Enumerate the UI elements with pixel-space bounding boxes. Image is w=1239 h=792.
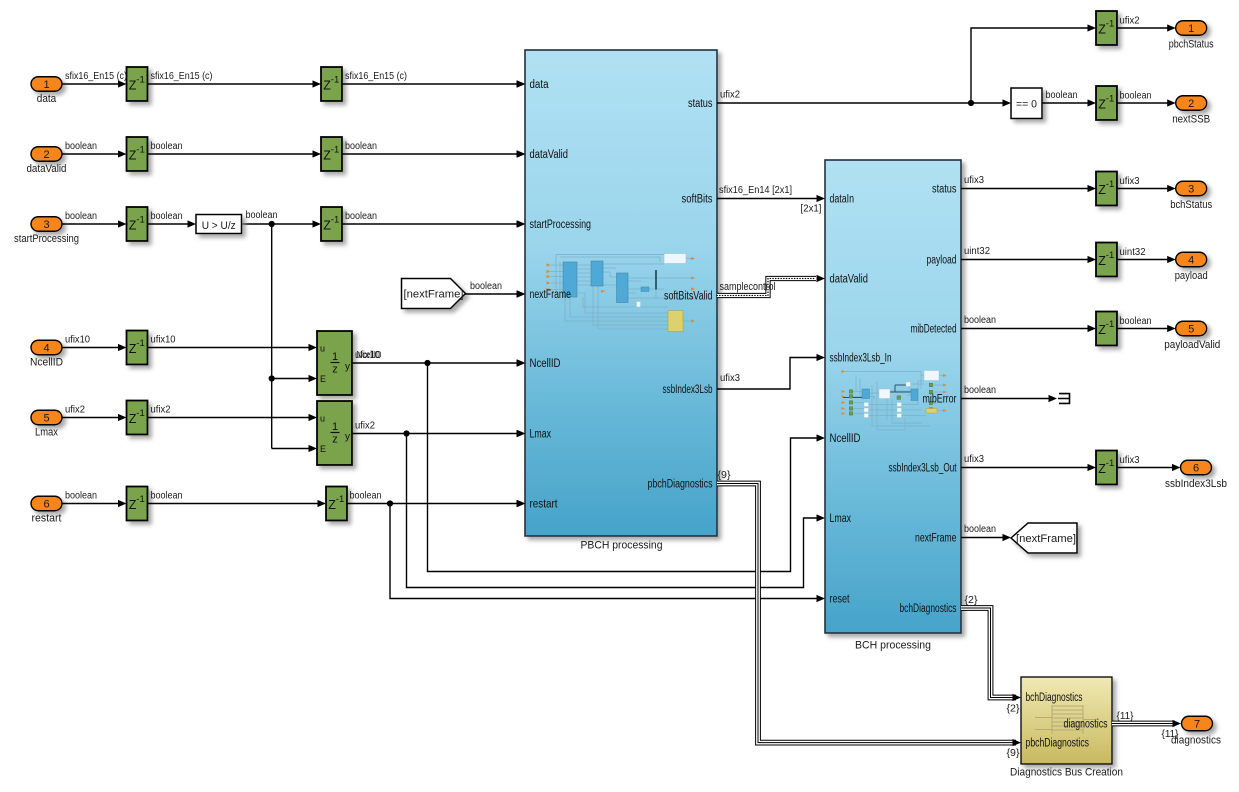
svg-text:NcellID: NcellID (530, 358, 561, 370)
svg-text:mibError: mibError (923, 393, 957, 405)
svg-text:{11}: {11} (1117, 711, 1135, 722)
svg-text:-1: -1 (136, 214, 144, 225)
svg-text:bchStatus: bchStatus (1170, 199, 1212, 211)
svg-text:dataValid: dataValid (830, 273, 869, 285)
svg-text:[nextFrame]: [nextFrame] (404, 289, 464, 301)
svg-text:5: 5 (1188, 323, 1194, 335)
svg-text:ufix3: ufix3 (720, 373, 740, 384)
svg-text:ufix2: ufix2 (1120, 16, 1140, 27)
svg-text:-1: -1 (1106, 179, 1114, 190)
svg-text:nextFrame: nextFrame (530, 289, 572, 301)
svg-text:2: 2 (43, 149, 49, 161)
svg-text:E: E (320, 374, 326, 384)
svg-text:reset: reset (830, 593, 851, 605)
svg-text:NcellID: NcellID (357, 350, 382, 361)
svg-text:dataValid: dataValid (530, 149, 569, 161)
svg-text:U > U/z: U > U/z (202, 220, 236, 232)
svg-text:-1: -1 (331, 144, 339, 155)
svg-text:ufix3: ufix3 (1120, 176, 1140, 187)
svg-text:{2}: {2} (965, 595, 979, 606)
svg-text:-1: -1 (136, 144, 144, 155)
svg-text:Diagnostics Bus Creation: Diagnostics Bus Creation (1010, 767, 1123, 779)
svg-text:pbchStatus: pbchStatus (1169, 38, 1214, 50)
svg-text:NcellID: NcellID (830, 433, 861, 445)
svg-text:ufix10: ufix10 (65, 334, 90, 345)
svg-text:boolean: boolean (470, 281, 502, 292)
svg-text:status: status (688, 98, 713, 110)
svg-text:payload: payload (927, 254, 957, 266)
svg-text:boolean: boolean (151, 490, 183, 501)
svg-text:4: 4 (1188, 254, 1194, 266)
svg-text:boolean: boolean (350, 490, 382, 501)
svg-text:-1: -1 (1106, 18, 1114, 29)
svg-text:z: z (332, 434, 338, 446)
svg-text:softBits: softBits (682, 193, 713, 205)
svg-text:ssbIndex3Lsb: ssbIndex3Lsb (663, 384, 713, 396)
svg-text:-1: -1 (136, 408, 144, 419)
svg-text:uint32: uint32 (964, 246, 990, 257)
svg-text:-1: -1 (1106, 319, 1114, 330)
svg-text:startProcessing: startProcessing (14, 233, 79, 245)
svg-text:boolean: boolean (65, 211, 97, 222)
svg-text:6: 6 (1193, 462, 1199, 474)
svg-text:z: z (332, 364, 338, 376)
svg-text:ufix2: ufix2 (151, 404, 171, 415)
svg-text:[nextFrame]: [nextFrame] (1016, 533, 1076, 545)
svg-text:boolean: boolean (345, 211, 377, 222)
svg-text:status: status (932, 183, 957, 195)
svg-text:PBCH processing: PBCH processing (581, 540, 663, 552)
svg-text:boolean: boolean (246, 210, 278, 221)
svg-text:boolean: boolean (1120, 316, 1152, 327)
svg-text:-1: -1 (136, 338, 144, 349)
svg-text:ufix2: ufix2 (65, 404, 85, 415)
svg-text:1: 1 (1188, 23, 1194, 35)
svg-text:3: 3 (1188, 183, 1194, 195)
svg-text:restart: restart (32, 512, 62, 524)
svg-text:Lmax: Lmax (35, 426, 58, 438)
svg-text:NcellID: NcellID (30, 356, 63, 368)
svg-text:y: y (345, 432, 350, 443)
svg-text:boolean: boolean (964, 315, 996, 326)
svg-text:bchDiagnostics: bchDiagnostics (900, 603, 957, 615)
svg-text:data: data (37, 93, 57, 105)
svg-text:-1: -1 (1106, 93, 1114, 104)
svg-text:-1: -1 (331, 74, 339, 85)
svg-text:boolean: boolean (65, 490, 97, 501)
svg-text:ufix3: ufix3 (964, 175, 984, 186)
svg-text:u: u (320, 414, 325, 424)
svg-text:startProcessing: startProcessing (530, 219, 592, 231)
svg-text:1: 1 (43, 79, 49, 91)
svg-text:diagnostics: diagnostics (1171, 734, 1221, 746)
svg-text:restart: restart (530, 498, 559, 510)
svg-text:{2}: {2} (1007, 704, 1021, 715)
svg-text:Lmax: Lmax (830, 513, 852, 525)
svg-text:dataValid: dataValid (27, 163, 67, 175)
svg-text:-1: -1 (331, 214, 339, 225)
svg-text:ssbIndex3Lsb_In: ssbIndex3Lsb_In (830, 352, 892, 364)
svg-text:boolean: boolean (345, 141, 377, 152)
svg-text:{9}: {9} (718, 470, 732, 481)
svg-text:nextFrame: nextFrame (915, 532, 957, 544)
svg-text:sfix16_En14 [2x1]: sfix16_En14 [2x1] (719, 185, 792, 196)
svg-text:ssbIndex3Lsb: ssbIndex3Lsb (1165, 478, 1227, 490)
svg-text:sfix16_En15 (c): sfix16_En15 (c) (345, 71, 407, 82)
svg-text:boolean: boolean (151, 211, 183, 222)
svg-text:6: 6 (43, 498, 49, 510)
svg-text:ufix2: ufix2 (355, 420, 375, 431)
svg-text:u: u (320, 344, 325, 354)
svg-text:E: E (320, 444, 326, 454)
svg-text:boolean: boolean (964, 524, 996, 535)
svg-text:dataIn: dataIn (830, 193, 855, 205)
svg-text:ssbIndex3Lsb_Out: ssbIndex3Lsb_Out (889, 462, 958, 474)
svg-text:samplecontrol: samplecontrol (720, 281, 776, 293)
svg-text:payload: payload (1175, 270, 1208, 282)
svg-text:bchDiagnostics: bchDiagnostics (1026, 692, 1083, 704)
svg-text:-1: -1 (136, 74, 144, 85)
svg-text:4: 4 (43, 342, 49, 354)
svg-text:-1: -1 (136, 494, 144, 505)
svg-text:ufix10: ufix10 (151, 334, 176, 345)
svg-text:-1: -1 (1106, 458, 1114, 469)
svg-text:softBitsValid: softBitsValid (664, 290, 713, 302)
svg-text:BCH processing: BCH processing (855, 640, 931, 652)
svg-text:ufix2: ufix2 (720, 90, 740, 101)
svg-text:y: y (345, 362, 350, 373)
svg-text:3: 3 (43, 219, 49, 231)
svg-text:payloadValid: payloadValid (1164, 339, 1220, 351)
svg-text:2: 2 (1188, 98, 1194, 110)
svg-text:ufix3: ufix3 (1120, 455, 1140, 466)
svg-text:boolean: boolean (151, 141, 183, 152)
svg-text:mibDetected: mibDetected (911, 323, 957, 335)
svg-text:nextSSB: nextSSB (1172, 113, 1210, 125)
svg-text:uint32: uint32 (1120, 247, 1146, 258)
svg-text:data: data (530, 79, 550, 91)
svg-text:1: 1 (332, 351, 338, 363)
svg-text:7: 7 (1194, 718, 1200, 730)
svg-text:diagnostics: diagnostics (1064, 718, 1108, 730)
svg-text:boolean: boolean (964, 385, 996, 396)
svg-text:== 0: == 0 (1016, 99, 1037, 111)
svg-text:5: 5 (43, 412, 49, 424)
svg-text:boolean: boolean (65, 141, 97, 152)
svg-text:sfix16_En15 (c): sfix16_En15 (c) (65, 71, 127, 82)
svg-text:pbchDiagnostics: pbchDiagnostics (648, 478, 713, 490)
svg-text:[2x1]: [2x1] (801, 204, 822, 215)
svg-text:pbchDiagnostics: pbchDiagnostics (1026, 737, 1090, 749)
svg-text:{9}: {9} (1007, 748, 1021, 759)
svg-text:boolean: boolean (1120, 91, 1152, 102)
svg-text:ufix3: ufix3 (964, 454, 984, 465)
svg-text:sfix16_En15 (c): sfix16_En15 (c) (151, 71, 213, 82)
svg-text:Lmax: Lmax (530, 428, 552, 440)
svg-text:1: 1 (332, 421, 338, 433)
svg-text:-1: -1 (336, 494, 344, 505)
svg-text:boolean: boolean (1046, 90, 1078, 101)
svg-text:-1: -1 (1106, 250, 1114, 261)
